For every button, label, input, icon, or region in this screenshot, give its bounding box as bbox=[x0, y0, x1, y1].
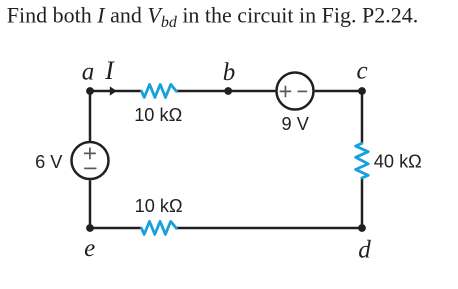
wire 6V source to node e bbox=[89, 180, 92, 228]
wire top-left a to resistor R1 bbox=[90, 90, 142, 93]
svg-text:I: I bbox=[104, 56, 115, 85]
node a dot bbox=[86, 87, 94, 95]
resistor 10k top bbox=[142, 84, 177, 97]
resistor 10k bottom bbox=[142, 221, 177, 234]
resistor 40k right bbox=[356, 143, 369, 178]
wire 40k resistor to node d bbox=[361, 178, 364, 228]
svg-text:9 V: 9 V bbox=[282, 114, 310, 134]
9V source circle bbox=[277, 73, 314, 110]
node b dot bbox=[224, 87, 232, 95]
9V minus bbox=[298, 90, 308, 92]
svg-text:b: b bbox=[223, 59, 236, 86]
svg-text:e: e bbox=[84, 235, 95, 262]
svg-text:c: c bbox=[356, 58, 367, 85]
wire resistor R1 to 9V source bbox=[176, 90, 275, 93]
6V minus bbox=[84, 167, 96, 169]
svg-text:10 kΩ: 10 kΩ bbox=[135, 196, 183, 216]
svg-text:a: a bbox=[82, 59, 95, 86]
9V plus bbox=[280, 86, 292, 98]
wire 9V source to node c bbox=[315, 90, 362, 93]
svg-text:Find both I and Vbd in the cir: Find both I and Vbd in the circuit in Fi… bbox=[7, 3, 418, 31]
6V plus bbox=[84, 148, 96, 160]
wire left vertical a to 6V source bbox=[89, 91, 92, 141]
svg-text:d: d bbox=[358, 236, 371, 263]
wire resistor R3 to node d bbox=[176, 227, 362, 230]
wire right vertical c to 40k resistor bbox=[361, 91, 364, 143]
wire bottom e to resistor R3 bbox=[90, 227, 142, 230]
svg-text:40 kΩ: 40 kΩ bbox=[374, 152, 422, 172]
svg-text:10 kΩ: 10 kΩ bbox=[134, 105, 182, 125]
node d dot bbox=[358, 224, 366, 232]
svg-text:6 V: 6 V bbox=[35, 152, 63, 172]
node e dot bbox=[86, 224, 94, 232]
node c dot bbox=[358, 87, 366, 95]
current arrow I bbox=[110, 86, 117, 95]
6V source circle bbox=[72, 142, 109, 179]
